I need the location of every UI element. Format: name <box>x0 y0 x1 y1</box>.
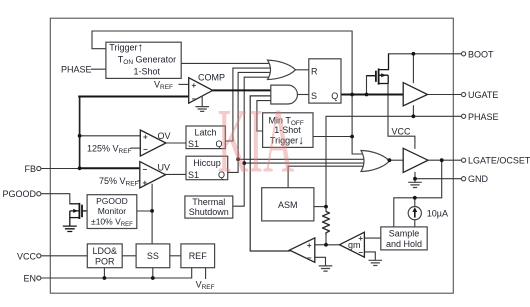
svg-text:+: + <box>307 241 312 250</box>
svg-text:and Hold: and Hold <box>386 239 422 249</box>
box Hiccup <box>186 156 228 180</box>
op-amp OV comparator <box>140 130 166 156</box>
wire PGOOD Monitor output <box>137 210 152 212</box>
svg-text:GND: GND <box>468 174 489 184</box>
wire EN stub to LDO <box>103 268 105 278</box>
wire TON output to OR1 input 1 <box>181 62 272 64</box>
box Sample and Hold <box>381 227 427 250</box>
svg-text:S1: S1 <box>188 170 199 180</box>
wire Thermal branch to OR2 <box>244 162 365 164</box>
wire OC comparator minus to ground <box>315 257 326 266</box>
svg-text:SS: SS <box>147 251 159 261</box>
svg-text:−: − <box>307 254 312 263</box>
thick nets <box>79 90 403 168</box>
svg-text:FB: FB <box>24 164 36 174</box>
svg-text:Latch: Latch <box>194 128 216 138</box>
box PGOOD Monitor <box>87 195 137 229</box>
svg-text:LDO&: LDO& <box>92 246 117 256</box>
box TON generator <box>106 42 181 78</box>
wire gm plus to sample hold <box>364 237 380 239</box>
wire OV output to Latch S1 <box>166 142 186 144</box>
box REF <box>181 244 215 268</box>
svg-text:−: − <box>358 248 363 257</box>
svg-text:+: + <box>143 179 148 188</box>
svg-text:EN: EN <box>23 274 36 284</box>
current source 10uA circle <box>408 207 421 220</box>
svg-text:S1: S1 <box>188 139 199 149</box>
border frame <box>50 18 453 293</box>
wire LGATE to sample hold loop <box>394 160 442 227</box>
buffer LGATE driver <box>403 148 428 172</box>
current source arrow <box>412 207 417 217</box>
svg-text:Sample: Sample <box>389 229 420 239</box>
wire UGATE driver top rail <box>412 54 414 83</box>
wire Hiccup Q to OR1 input 3 <box>228 72 273 172</box>
svg-text:+: + <box>143 133 148 142</box>
wire feedback Q to TON trigger <box>92 31 352 95</box>
wire Q vertical to OR2 top input <box>352 95 366 155</box>
wire FB pin to node <box>41 168 80 170</box>
ground under gm amplifier <box>369 260 383 265</box>
wire OR1 output to latch R <box>296 69 309 71</box>
ground under PGOOD FET <box>63 226 77 231</box>
svg-text:+: + <box>358 234 363 243</box>
or-gate OR1 (R input) <box>268 60 296 79</box>
box SS <box>136 244 170 268</box>
wire resistor stubs <box>325 207 327 245</box>
svg-text:REF: REF <box>189 251 208 261</box>
resistor R ocset <box>323 212 330 235</box>
svg-text:Shutdown: Shutdown <box>189 207 229 217</box>
svg-text:COMP: COMP <box>198 73 225 83</box>
ground under LGATE driver <box>408 182 422 187</box>
svg-text:Monitor: Monitor <box>98 206 127 216</box>
svg-text:Q: Q <box>331 91 338 101</box>
wire boot FET source to VCC rail to LGATE driver <box>388 84 415 149</box>
transistor Q2 PGOOD pulldown FET <box>70 203 87 226</box>
wire COMP output to AND input 1 <box>213 89 273 91</box>
or-gate OR2 (LGATE) <box>361 151 389 172</box>
wire COMP minus from FB riser <box>79 96 189 98</box>
box LDO POR <box>87 244 122 268</box>
buffer UGATE driver <box>403 83 427 106</box>
svg-text:PHASE: PHASE <box>468 112 499 122</box>
wire LGATE driver bottom to GND <box>414 172 416 182</box>
box SR latch <box>309 59 341 103</box>
wire MinTOFF trigger input to AND input 3 <box>257 101 273 131</box>
wire VREF to COMP plus <box>179 83 190 85</box>
svg-text:−: − <box>192 95 197 104</box>
ground under OC comparator <box>319 266 333 271</box>
wire boot FET gate drop <box>367 76 376 95</box>
wire 125% VREF to OV minus <box>131 147 142 149</box>
wire UV to SS vertical <box>151 184 153 244</box>
svg-text:KIA: KIA <box>217 90 294 192</box>
wire UGATE output <box>428 94 462 96</box>
wire PHASE net <box>326 116 462 206</box>
svg-text:VCC: VCC <box>392 127 412 137</box>
op-amp OC comparator (left pointing) <box>290 238 315 262</box>
op-amp gm amplifier (left pointing) <box>340 232 365 257</box>
svg-text:Thermal: Thermal <box>192 197 225 207</box>
wire SS to REF <box>170 255 181 257</box>
wire OR2 output to LGATE driver <box>389 159 403 161</box>
box Thermal Shutdown <box>185 196 233 218</box>
wire comparator plus row <box>315 244 340 246</box>
wire EN stub to SS <box>152 268 154 278</box>
and-gate AND1 (S input) <box>271 85 298 104</box>
svg-text:R: R <box>311 66 318 76</box>
svg-text:Hiccup: Hiccup <box>193 158 221 168</box>
svg-text:Trigger↑: Trigger↑ <box>109 40 143 54</box>
transistor Q1 bootstrap FET <box>367 54 389 85</box>
wire FB riser to OV plus <box>80 135 142 137</box>
boxes <box>87 42 427 267</box>
svg-text:UV: UV <box>158 163 171 173</box>
wire current source stubs <box>414 198 416 227</box>
svg-text:PHASE: PHASE <box>61 65 92 75</box>
wire Thermal Shutdown to OR1 input 4 <box>233 77 274 206</box>
comparator polarity marks <box>143 81 364 263</box>
svg-text:−: − <box>143 145 148 154</box>
svg-text:UGATE: UGATE <box>468 90 498 100</box>
svg-text:LGATE/OCSET: LGATE/OCSET <box>468 156 530 166</box>
wire gm minus to ground <box>364 252 375 260</box>
wire UV output to Hiccup S1 <box>166 173 187 175</box>
wire FB to UV minus thick <box>80 167 141 169</box>
wire PGOOD pin to FET drain <box>41 194 70 204</box>
wire Latch Q to OR1 input 2 <box>225 68 272 141</box>
svg-text:POR: POR <box>95 256 115 266</box>
wire ASM top to OR2 input <box>288 166 366 188</box>
op-amp COMP comparator <box>189 78 213 104</box>
wire GND rail <box>415 178 462 180</box>
svg-text:VCC: VCC <box>17 251 37 261</box>
svg-text:S: S <box>311 91 317 101</box>
svg-text:1-Shot: 1-Shot <box>134 67 161 77</box>
wire LDO to SS <box>122 255 136 257</box>
wire ASM output to OCSET node <box>314 206 326 208</box>
svg-text:−: − <box>143 165 148 174</box>
svg-text:BOOT: BOOT <box>468 49 494 59</box>
wire AND1 output to latch S <box>298 94 309 96</box>
wire VCC pin to LDO <box>41 255 87 257</box>
svg-text:10µA: 10µA <box>427 208 448 218</box>
wire LGATE output <box>428 159 462 161</box>
wire REF output stub <box>205 268 207 279</box>
wire UGATE driver bottom rail <box>412 106 414 117</box>
wire Hiccup branch to OR2 <box>238 158 365 160</box>
op-amp UV comparator <box>140 162 166 188</box>
wire latch Q output to UGATE driver <box>341 94 403 96</box>
svg-text:PGOOD: PGOOD <box>96 196 128 206</box>
svg-text:ASM: ASM <box>278 200 298 210</box>
box Min TOFF one shot <box>263 113 313 148</box>
box Latch <box>186 126 225 149</box>
ground under COMP <box>195 96 209 111</box>
svg-text:+: + <box>192 81 197 90</box>
wire BOOT rail <box>389 53 462 55</box>
svg-text:PGOOD: PGOOD <box>2 189 36 199</box>
wire 75% VREF to UV plus <box>138 180 141 182</box>
wire EN net <box>41 268 192 278</box>
wire FB riser <box>79 97 81 169</box>
wire OC comparator output to AND input 2 <box>250 96 289 251</box>
svg-text:OV: OV <box>158 131 171 141</box>
wire PHASE label to TON generator <box>92 68 107 70</box>
wire MinTOFF output to Q vertical <box>313 136 352 138</box>
pin circles <box>37 52 466 280</box>
box ASM <box>262 188 314 221</box>
